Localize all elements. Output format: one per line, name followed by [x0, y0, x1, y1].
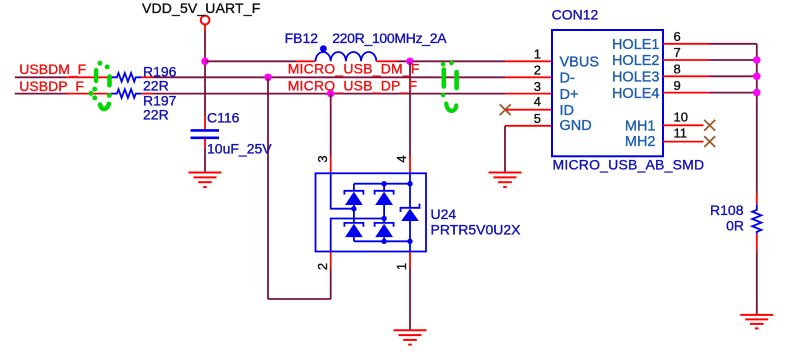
wire R108 to ground: [756, 251, 758, 315]
svg-text:220R_100MHz_2A: 220R_100MHz_2A: [332, 30, 447, 46]
wire U24 pin1 to ground: [409, 269, 411, 331]
svg-text:D+: D+: [560, 87, 579, 103]
svg-text:R108: R108: [710, 202, 744, 218]
net label MICRO_USB_DP_F: [288, 78, 418, 94]
node junction DM loop: [264, 74, 272, 82]
wire pin8 to right bus: [709, 75, 757, 77]
power symbol VDD_5V_UART_F: [201, 16, 210, 31]
pin stub R108 bottom: [756, 234, 758, 251]
pin number 9 of CON12: [674, 78, 681, 93]
U24 internal pin3 lead: [331, 173, 354, 208]
ferrite bead FB12: [316, 45, 377, 61]
node U24 internal junctions: [351, 181, 413, 244]
svg-text:6: 6: [674, 29, 681, 44]
pin stub R196 pin2: [142, 76, 153, 78]
annotation green marks left: [88, 61, 111, 109]
svg-text:C116: C116: [207, 110, 240, 126]
node junction bus pin9: [753, 89, 761, 97]
resistor R197: [111, 89, 141, 98]
wire pin9 to right bus: [709, 92, 757, 94]
wire right bus vertical: [756, 44, 758, 194]
no-connect X on CON12 pin4 ID: [500, 104, 511, 115]
no-connect X on MH1: [704, 120, 715, 131]
wire DP down to U24 pin3: [330, 94, 332, 157]
svg-text:ID: ID: [560, 103, 575, 119]
node junction VBUS to U24 pin4: [406, 58, 414, 66]
svg-text:MH2: MH2: [625, 134, 656, 150]
label C116: [207, 110, 240, 126]
value MICRO_USB_AB_SMD: [553, 157, 705, 173]
pin stub CON12 pin7: [663, 59, 709, 61]
pin name GND: [560, 118, 592, 134]
svg-text:5: 5: [534, 111, 541, 126]
pin number 7 of CON12: [674, 45, 681, 60]
net label MICRO_USB_DM_F: [288, 61, 420, 77]
pin stub CON12 pin10 MH1: [663, 124, 704, 126]
svg-text:22R: 22R: [143, 77, 169, 93]
pin stub CON12 pin6: [663, 43, 709, 45]
capacitor C116: [191, 130, 220, 137]
wire VBUS horizontal from junction to FB12: [205, 60, 296, 62]
value 220R_100MHz_2A: [332, 30, 447, 46]
pin stub R196 pin1: [66, 76, 111, 78]
U24 right column connects: [409, 173, 411, 251]
node junction VBUS at VDD: [201, 58, 209, 66]
label R108: [710, 202, 744, 218]
resistor R108: [752, 205, 761, 234]
wire VBUS to CON12: [397, 60, 506, 62]
pin name MH2: [625, 134, 656, 150]
wire DM loop down from junction: [267, 77, 269, 299]
pin number 5 of CON12: [534, 111, 541, 126]
svg-text:FB12: FB12: [285, 30, 319, 46]
svg-text:0R: 0R: [726, 218, 744, 234]
wire DM loop horizontal: [268, 298, 331, 300]
value 10uF_25V: [207, 141, 272, 157]
pin number 10 of CON12: [674, 109, 688, 124]
U24 middle column connects: [383, 184, 385, 242]
no-connect X on MH2: [704, 136, 715, 147]
pin stub R197 pin2: [142, 93, 153, 95]
pin stub CON12 pin9: [663, 92, 709, 94]
svg-text:HOLE1: HOLE1: [612, 37, 660, 53]
diode D-left-bottom of U24: [344, 223, 363, 237]
pin stub CON12 pin1 VBUS: [505, 60, 552, 62]
pin number 1 of U24: [394, 263, 409, 270]
node junction bus pin7: [753, 56, 761, 64]
svg-text:22R: 22R: [143, 106, 169, 122]
svg-text:D-: D-: [560, 71, 575, 87]
pin stub CON12 pin5 GND: [505, 125, 552, 127]
wire GND pin5 vertical: [504, 126, 506, 172]
pin stub CON12 pin4 ID: [506, 109, 552, 111]
pin number 6 of CON12: [674, 29, 681, 44]
svg-text:U24: U24: [431, 206, 457, 222]
wire MICRO_USB_DM_F: [153, 76, 505, 78]
net label USBDM_F: [19, 61, 86, 77]
pin stub FB12 pin2: [376, 60, 396, 62]
ESD protector U24 body: [316, 173, 427, 251]
pin name D-: [560, 71, 575, 87]
wire pin7 to right bus: [709, 59, 757, 61]
pin number 2 of CON12: [534, 63, 541, 78]
pin stub C116 bottom: [204, 139, 206, 148]
wire MICRO_USB_DP_F: [153, 93, 505, 95]
U24 left column connects: [353, 184, 355, 242]
wire USBDM_F left segment: [15, 76, 66, 78]
pin number 1 of CON12: [534, 47, 541, 62]
svg-text:4: 4: [394, 155, 409, 162]
label R196: [143, 63, 177, 79]
svg-text:10: 10: [674, 109, 688, 124]
pin stub U24 pin4: [409, 157, 411, 174]
pin stub U24 pin3: [330, 157, 332, 174]
label FB12: [285, 30, 319, 46]
svg-text:VBUS: VBUS: [560, 54, 600, 70]
pin number 11 of CON12: [674, 125, 688, 140]
label R197: [143, 93, 177, 109]
svg-text:1: 1: [394, 263, 409, 270]
node junction DP to U24 pin3: [327, 90, 335, 98]
value 22R of R197: [143, 106, 169, 122]
pin name ID: [560, 103, 575, 119]
resistor R196: [111, 73, 141, 82]
svg-text:PRTR5V0U2X: PRTR5V0U2X: [431, 222, 522, 238]
svg-text:HOLE4: HOLE4: [612, 86, 660, 102]
pin number 3 of U24: [315, 155, 330, 162]
zener diode of U24: [401, 204, 420, 221]
pin name HOLE2: [612, 53, 660, 69]
value 22R of R196: [143, 77, 169, 93]
value PRTR5V0U2X: [431, 222, 522, 238]
pin name VBUS: [560, 54, 600, 70]
wire VBUS down to U24 pin4: [409, 61, 411, 156]
pin name MH1: [625, 119, 656, 135]
pin name HOLE3: [612, 70, 660, 86]
U24 bottom rail: [354, 240, 410, 242]
svg-text:10uF_25V: 10uF_25V: [207, 141, 272, 157]
pin stub CON12 pin2 D-: [505, 76, 552, 78]
wire USBDP_F left segment: [15, 93, 66, 95]
svg-text:2: 2: [315, 263, 330, 270]
wire C116 to ground: [204, 148, 206, 172]
pin stub U24 pin2: [330, 252, 332, 269]
pin number 4 of U24: [394, 155, 409, 162]
svg-text:MICRO_USB_DM_F: MICRO_USB_DM_F: [288, 61, 420, 77]
node junction bus pin8: [753, 73, 761, 81]
svg-text:MICRO_USB_AB_SMD: MICRO_USB_AB_SMD: [553, 157, 705, 173]
connector CON12 body: [552, 30, 663, 156]
pin name HOLE1: [612, 37, 660, 53]
svg-text:CON12: CON12: [552, 7, 599, 23]
annotation green marks right: [441, 61, 457, 111]
pin number 3 of CON12: [534, 79, 541, 94]
net label USBDP_F: [19, 78, 84, 94]
pin stub R197 pin1: [66, 93, 111, 95]
pin stub CON12 pin11 MH2: [663, 141, 704, 143]
U24 top rail: [354, 183, 410, 185]
label U24: [431, 206, 457, 222]
svg-text:7: 7: [674, 45, 681, 60]
pin number 8 of CON12: [674, 62, 681, 77]
wire VDD vertical down to C116: [204, 61, 206, 115]
svg-text:HOLE2: HOLE2: [612, 53, 660, 69]
U24 internal pin2 lead: [331, 219, 384, 252]
svg-text:2: 2: [534, 63, 541, 78]
svg-text:9: 9: [674, 78, 681, 93]
ground symbol at U24 pin1: [394, 330, 427, 344]
svg-text:HOLE3: HOLE3: [612, 70, 660, 86]
svg-text:MH1: MH1: [625, 119, 656, 135]
wire pin6 to right bus: [709, 43, 757, 45]
pin name D+: [560, 87, 579, 103]
pin stub C116 top: [204, 116, 206, 130]
ground symbol at CON12 GND: [489, 173, 522, 188]
pin name HOLE4: [612, 86, 660, 102]
svg-text:USBDM_F: USBDM_F: [19, 61, 86, 77]
svg-text:8: 8: [674, 62, 681, 77]
pin stub CON12 pin8: [663, 75, 709, 77]
ground symbol at C116: [189, 173, 222, 188]
pin number 2 of U24: [315, 263, 330, 270]
svg-text:VDD_5V_UART_F: VDD_5V_UART_F: [142, 0, 260, 16]
svg-text:MICRO_USB_DP_F: MICRO_USB_DP_F: [288, 78, 418, 94]
ground symbol at R108: [740, 315, 773, 329]
wire DM loop up to U24 pin2: [330, 269, 332, 300]
diode D-mid-top of U24: [375, 191, 394, 205]
svg-text:4: 4: [534, 94, 541, 109]
pin stub CON12 pin3 D+: [505, 93, 552, 95]
svg-text:3: 3: [315, 155, 330, 162]
svg-text:3: 3: [534, 79, 541, 94]
pin number 4 of CON12: [534, 94, 541, 109]
diode D-mid-bottom of U24: [375, 223, 394, 237]
net label VDD_5V_UART_F: [142, 0, 260, 16]
pin stub FB12 pin1: [296, 60, 315, 62]
label CON12: [552, 7, 599, 23]
wire VDD vertical to VBUS junction: [204, 31, 206, 61]
diode D-left-top of U24: [344, 191, 363, 205]
svg-text:GND: GND: [560, 118, 592, 134]
pin stub R108 top: [756, 194, 758, 205]
value 0R: [726, 218, 744, 234]
svg-text:1: 1: [534, 47, 541, 62]
pin stub U24 pin1: [409, 252, 411, 269]
svg-text:11: 11: [674, 125, 688, 140]
svg-text:USBDP_F: USBDP_F: [19, 78, 84, 94]
